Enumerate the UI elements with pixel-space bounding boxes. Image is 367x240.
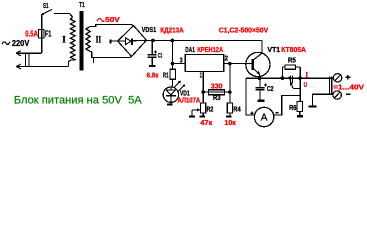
wire fuse-switch vertical (41, 14, 43, 53)
svg-text:Блок питания на 50V 5А: Блок питания на 50V 5А (14, 95, 143, 107)
node junction R5 right (298, 76, 302, 80)
svg-text:220V: 220V (12, 39, 30, 48)
ammeter A (254, 107, 273, 126)
wire panel double line (328, 77, 330, 95)
transformer T1 primary winding I (70, 17, 75, 60)
svg-text:U: U (304, 80, 307, 89)
svg-text:VDS1: VDS1 (142, 25, 157, 34)
svg-text:DA1: DA1 (185, 45, 195, 54)
svg-text:0.5A: 0.5A (25, 29, 38, 38)
ground R6 (297, 115, 303, 117)
wire R3 link (203, 91, 230, 93)
svg-text:VT1: VT1 (267, 45, 280, 54)
svg-text:Т1: Т1 (79, 2, 84, 9)
resistor R4 10k (229, 92, 231, 103)
svg-text:330: 330 (211, 81, 223, 90)
wire lower terminal to ground (313, 94, 333, 105)
LED VD1 AL107A (171, 85, 173, 87)
ground LED (167, 104, 173, 106)
wire secondary bottom lead to bridge (92, 52, 132, 58)
pin 3 wire (173, 63, 186, 65)
svg-text:=1...40V: =1...40V (333, 82, 364, 91)
svg-text:R6: R6 (289, 103, 296, 112)
svg-text:3: 3 (180, 58, 183, 65)
terminal output minus (333, 91, 341, 99)
wire small stub (92, 58, 94, 63)
svg-text:I: I (62, 35, 66, 45)
capacitor C2 (259, 78, 261, 87)
svg-text:С2: С2 (267, 86, 274, 93)
wire LED cathode (170, 102, 172, 103)
svg-text:F1: F1 (45, 30, 52, 39)
transistor VT1 KT805A (246, 52, 270, 76)
transformer T1 secondary winding II (86, 27, 92, 52)
resistor R5 shunt (281, 67, 283, 78)
svg-text:С1: С1 (158, 53, 163, 60)
pin 2 wire (224, 63, 252, 65)
svg-text:КД213А: КД213А (160, 25, 184, 34)
svg-text:С1,С2-500×50V: С1,С2-500×50V (219, 25, 268, 34)
wire emitter lead (259, 75, 261, 79)
svg-text:6.8к: 6.8к (147, 70, 159, 79)
ground output (309, 105, 317, 107)
wire collector riser (261, 41, 263, 54)
svg-text:R4: R4 (233, 104, 241, 113)
wire bridge minus stub with terminal tick (112, 40, 118, 42)
node junction pin3 (171, 62, 175, 66)
switch I/U selector (289, 76, 291, 86)
wire lower mains lead with plug arrow (16, 66, 68, 68)
ground R2 wiper (189, 116, 195, 118)
svg-text:R5: R5 (288, 56, 296, 65)
wire meter plus branch (246, 78, 255, 115)
fuse F1 0.5A (39, 29, 45, 38)
ground C1 (149, 65, 156, 67)
svg-text:2: 2 (225, 56, 228, 63)
node stray red pixel (68, 66, 69, 67)
svg-text:II: II (96, 35, 102, 45)
svg-text:47к: 47к (200, 118, 212, 127)
node junction C1 (151, 39, 155, 43)
svg-text:S1: S1 (43, 3, 49, 10)
svg-text:R3: R3 (213, 93, 221, 102)
resistor R6 (297, 102, 302, 112)
node junction pin2-R3R4 (228, 62, 232, 66)
wiper arrow R2 (192, 109, 199, 111)
node junction R5 left (281, 76, 285, 80)
resistor R1 6.8k (172, 41, 174, 70)
wire primary bottom lead (68, 60, 70, 66)
svg-text:1: 1 (200, 72, 202, 79)
node ~220V mains label (2, 42, 10, 44)
node junction R1 (171, 39, 175, 43)
capacitor C1 (151, 41, 153, 55)
resistor R2 47k potentiometer (202, 92, 204, 103)
svg-text:КРЕН12А: КРЕН12А (197, 45, 223, 54)
wire plug cord double line (25, 53, 27, 66)
svg-text:50V: 50V (105, 17, 120, 24)
node junction R3 left (201, 90, 205, 94)
wire top positive rail (146, 40, 262, 42)
svg-text:АЛ107А: АЛ107А (177, 95, 200, 104)
transformer T1 core (79, 11, 83, 71)
svg-text:КТ805А: КТ805А (281, 45, 306, 54)
ground C2 (257, 100, 264, 102)
svg-text:R2: R2 (207, 104, 214, 113)
svg-text:10к: 10к (224, 118, 236, 127)
terminal output plus (333, 74, 341, 82)
op-amp regulator DA1 KREN12A box (185, 55, 224, 72)
wire secondary top lead to bridge (90, 25, 134, 27)
node ~50V label (97, 19, 104, 22)
resistor R3 330 (208, 90, 224, 95)
svg-text:R1: R1 (163, 70, 169, 79)
node junction R3 right (228, 90, 232, 94)
wire upper mains lead with plug arrow (16, 52, 42, 54)
wire meter minus branch (274, 95, 300, 115)
diode bridge VDS1 KD213A (118, 26, 147, 57)
LED arrows (174, 81, 180, 87)
pin 1 wire (202, 72, 204, 93)
wire emitter output rail (246, 77, 333, 79)
svg-text:А: А (261, 113, 268, 124)
node junction emitter (258, 76, 262, 80)
